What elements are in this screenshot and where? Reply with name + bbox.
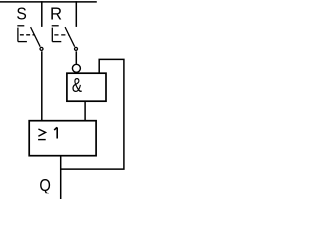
dashed mechanical link (R)	[54, 34, 69, 36]
switch R contact circle	[75, 47, 78, 50]
wire switch S to OR gate	[41, 51, 43, 120]
dashed mechanical link (S)	[20, 34, 35, 36]
wire switch R to inverter bubble	[75, 51, 77, 64]
wire AND output to OR input	[84, 101, 86, 121]
inverter bubble on AND input	[72, 64, 80, 72]
OR gate U2 box	[29, 121, 96, 156]
switch R arm (normally open contact)	[65, 27, 75, 47]
wire top supply rail	[0, 1, 97, 3]
svg-text:S: S	[16, 3, 26, 23]
svg-text:Q: Q	[39, 176, 50, 196]
AND gate U1 box	[67, 73, 106, 101]
wire from rail to switch S	[41, 1, 43, 27]
pushbutton actuator E (S switch)	[17, 25, 24, 27]
switch S arm (normally open contact)	[31, 27, 41, 47]
feedback wire from Q to AND input	[61, 59, 124, 169]
svg-text:R: R	[50, 3, 62, 24]
pushbutton actuator E (R switch)	[52, 25, 59, 27]
OR gate label >=	[38, 129, 46, 140]
wire from rail to switch R	[75, 1, 77, 27]
switch S contact circle	[40, 47, 43, 50]
wire OR output to bottom edge	[60, 156, 62, 199]
OR gate label 1	[54, 127, 57, 138]
svg-text:&: &	[72, 74, 82, 97]
